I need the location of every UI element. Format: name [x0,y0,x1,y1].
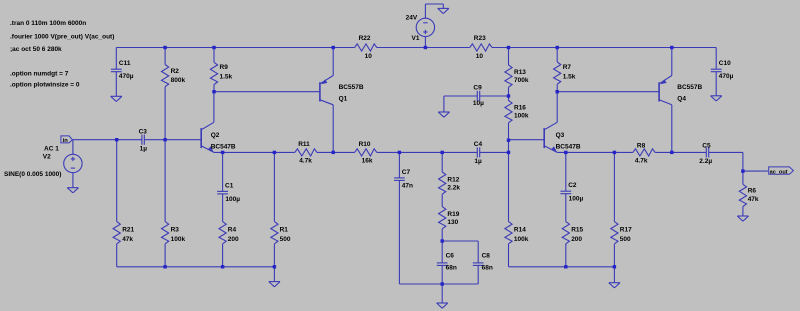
svg-text:2.2k: 2.2k [447,185,460,192]
wire R19 to C8 top [442,241,478,263]
svg-text:R2: R2 [171,68,180,75]
svg-text:100µ: 100µ [225,196,240,203]
svg-text:R8: R8 [637,143,646,150]
wire C3 to Q2 base [144,139,201,141]
junction dot 10 [507,94,510,97]
spice directive .option numdgt [10,70,69,77]
junction dot 5 [507,46,510,49]
svg-text:200: 200 [571,236,582,243]
svg-text:10: 10 [476,53,484,60]
junction dot 28 [564,265,567,268]
svg-text:100k: 100k [171,236,186,243]
capacitor C3 [139,129,148,153]
svg-text:700k: 700k [514,77,529,84]
ground below R1 [269,267,280,287]
wire node base Q1 [214,91,320,93]
ground above V1 [438,8,449,13]
wire in to C3 [73,139,142,141]
svg-text:C8: C8 [482,252,491,259]
wire top supply rail [116,47,716,49]
svg-text:.option numdgt = 7: .option numdgt = 7 [10,70,69,77]
svg-text:Q1: Q1 [339,95,348,102]
junction dot 8 [212,90,215,93]
ground below V2 [67,188,78,193]
junction dot 14 [221,151,224,154]
voltage source V1 24V [406,4,444,48]
svg-text:.option plotwinsize = 0: .option plotwinsize = 0 [10,82,80,89]
wire bottom left [117,266,275,268]
svg-text:R22: R22 [359,35,371,42]
junction dot 2 [212,46,215,49]
svg-text:SINE(0 0.005 1000): SINE(0 0.005 1000) [4,171,61,178]
svg-text:500: 500 [620,236,631,243]
transistor Q2 BC547B [201,122,236,152]
resistor R2 [162,48,186,140]
svg-text:AC 1: AC 1 [44,145,59,152]
capacitor C9 [444,85,509,112]
wire node base Q4 [557,91,659,93]
svg-text:in: in [63,138,69,144]
svg-text:R16: R16 [514,105,526,112]
svg-text:.fourier 1000 V(pre_out) V(ac_: .fourier 1000 V(pre_out) V(ac_out) [10,34,114,41]
svg-text:C7: C7 [402,169,411,176]
ground below C11 [111,96,122,101]
svg-text:R14: R14 [514,227,526,234]
svg-text:R12: R12 [447,176,459,183]
svg-text:10µ: 10µ [473,100,484,107]
resistor R6 [739,171,759,216]
svg-text:800k: 800k [171,77,186,84]
svg-text:47k: 47k [122,236,133,243]
svg-text:4.7k: 4.7k [299,157,312,164]
spice directive ;ac [10,46,62,53]
wire bottom center [399,283,478,285]
svg-text:R13: R13 [514,69,526,76]
ground below R6 [737,216,748,221]
net flag ac_out [769,167,794,175]
svg-text:Q4: Q4 [677,95,686,102]
svg-text:500: 500 [280,236,291,243]
transistor Q4 BC557B [659,48,702,153]
voltage source V2 AC [4,140,82,188]
svg-text:4.7k: 4.7k [635,157,648,164]
junction dot 9 [556,90,559,93]
wire to ac_out flag [743,170,768,172]
resistor R23 value 10 [470,35,492,60]
svg-text:C10: C10 [719,60,731,67]
svg-text:100k: 100k [514,236,529,243]
wire R16 node to Q3 base [509,140,545,153]
junction dot 13 [507,139,510,142]
resistor R12 [439,152,461,206]
resistor R19 [439,207,460,241]
wire Q2 emitter node [214,151,295,153]
wire Q3 collector to base node [556,92,558,123]
resistor R16 [505,96,529,140]
svg-text:.tran 0 110m 100m 6000n: .tran 0 110m 100m 6000n [10,20,86,27]
resistor R9 [210,48,232,92]
svg-text:R1: R1 [280,227,289,234]
capacitor C5 [699,143,712,166]
junction dot 18 [441,151,444,154]
svg-text:R7: R7 [563,64,572,71]
svg-text:;ac oct 50 6 280k: ;ac oct 50 6 280k [10,46,62,53]
svg-text:R11: R11 [298,141,310,148]
svg-text:C4: C4 [474,141,483,148]
svg-text:100µ: 100µ [569,196,584,203]
resistor R7 [554,48,576,92]
svg-text:16k: 16k [362,157,373,164]
net flag in [61,136,73,144]
junction dot 11 [115,138,118,141]
svg-text:R19: R19 [447,211,459,218]
resistor R21 [113,140,134,267]
svg-text:R4: R4 [228,227,237,234]
spice directive .tran [10,20,86,27]
svg-text:470µ: 470µ [119,73,134,80]
svg-text:R6: R6 [748,188,757,195]
resistor R11 4.7k [295,141,317,164]
resistor R8 4.7k [633,143,655,165]
junction dot 21 [613,151,616,154]
svg-text:68n: 68n [482,265,493,272]
transistor Q3 BC547B [544,122,581,152]
svg-text:BC557B: BC557B [677,84,702,91]
svg-text:100k: 100k [514,113,529,120]
svg-text:C11: C11 [119,60,131,67]
ground below C9 [438,112,449,117]
svg-text:470µ: 470µ [719,73,734,80]
svg-text:130: 130 [447,219,458,226]
svg-text:R17: R17 [620,227,632,234]
svg-text:1.5k: 1.5k [563,73,576,80]
junction dot 24 [441,239,444,242]
svg-text:ac_out: ac_out [770,169,788,175]
svg-text:10: 10 [365,53,373,60]
transistor Q1 BC557B [320,48,364,153]
junction dot 15 [273,151,276,154]
resistor R13 [505,48,529,97]
junction dot 29 [613,265,616,268]
capacitor C8 [473,252,493,284]
svg-text:R23: R23 [474,35,486,42]
svg-text:Q3: Q3 [556,132,565,139]
svg-text:C2: C2 [568,182,577,189]
resistor R4 [219,222,239,267]
svg-text:C6: C6 [446,252,455,259]
svg-text:BC547B: BC547B [211,144,236,151]
svg-text:BC557B: BC557B [339,84,364,91]
svg-text:2.2µ: 2.2µ [699,158,712,165]
junction dot 17 [398,151,401,154]
svg-text:24V: 24V [406,15,418,22]
wire Q3 emitter node [557,151,633,153]
svg-text:47n: 47n [402,182,413,189]
ground below center network [437,284,448,308]
junction dot 6 [556,46,559,49]
svg-text:68n: 68n [446,265,457,272]
junction dot 19 [507,151,510,154]
svg-text:V1: V1 [412,35,420,42]
capacitor C11 [111,48,134,97]
capacitor C2 [560,152,583,221]
resistor R22 value 10 [355,35,377,60]
spice directive .option plotwinsize [10,82,80,89]
junction dot 26 [221,265,224,268]
svg-text:Q2: Q2 [211,132,220,139]
capacitor C7 [394,152,413,284]
junction dot 4 [424,46,427,49]
resistor R14 [505,152,529,266]
wire R10 to C4 [377,151,478,153]
junction dot 25 [163,265,166,268]
resistor R10 16k [355,141,377,164]
svg-text:47k: 47k [748,196,759,203]
wire C4 to R14 node [480,151,509,153]
junction dot 16 [332,151,335,154]
svg-text:R21: R21 [122,227,134,234]
capacitor C1 [217,152,240,221]
junction dot 27 [273,265,276,268]
svg-text:R3: R3 [171,227,180,234]
svg-text:C9: C9 [473,85,482,92]
resistor R3 [162,140,186,267]
svg-text:C1: C1 [225,182,234,189]
svg-text:C5: C5 [702,143,711,150]
junction dot 20 [564,151,567,154]
svg-text:BC547B: BC547B [556,144,581,151]
svg-text:200: 200 [228,236,239,243]
svg-text:R15: R15 [571,227,583,234]
resistor R17 [611,152,632,266]
svg-text:1µ: 1µ [140,146,148,153]
capacitor C6 [437,241,457,284]
svg-text:V2: V2 [43,154,51,161]
svg-text:1µ: 1µ [474,158,482,165]
wire Q2 collector to base node [213,92,215,123]
junction dot 30 [441,282,444,285]
ground below R17 [609,267,620,288]
wire R8 to C5 [655,151,706,153]
junction dot 1 [163,46,166,49]
junction dot 23 [741,169,744,172]
junction dot 3 [332,46,335,49]
wire bottom right [509,266,615,268]
junction dot 22 [670,151,673,154]
spice directive .fourier [10,34,114,41]
junction dot 12 [163,138,166,141]
ground below C10 [711,96,722,101]
wire R11 to R10 [317,151,355,153]
capacitor C4 [474,141,483,165]
svg-text:R9: R9 [220,64,229,71]
wire C5 to output corner [709,152,743,171]
junction dot 7 [670,46,673,49]
svg-text:1.5k: 1.5k [220,73,233,80]
resistor R1 [271,152,291,266]
capacitor C10 [711,48,734,96]
resistor R15 [562,222,583,267]
svg-text:R10: R10 [359,141,371,148]
svg-text:C3: C3 [139,129,148,136]
